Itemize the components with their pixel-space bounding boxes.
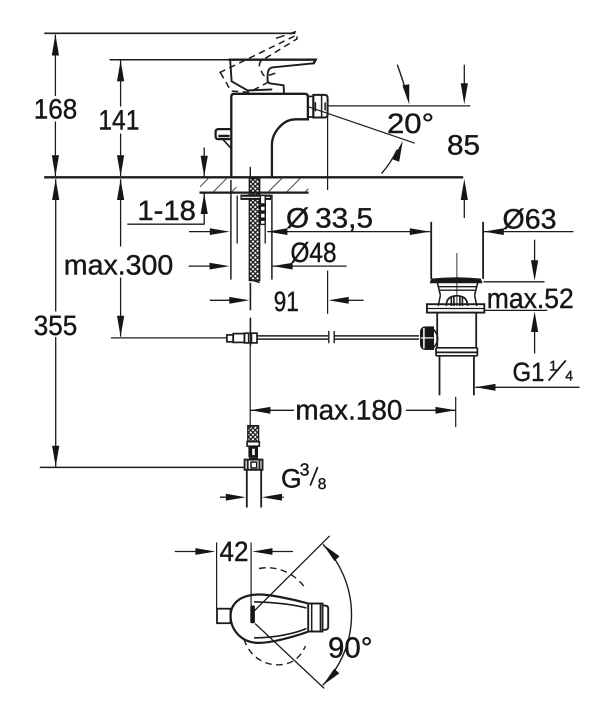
- node waste plug dome: [446, 296, 467, 306]
- svg-text:8: 8: [318, 476, 327, 493]
- wire dim 85 upper vertical: [463, 65, 465, 84]
- svg-text:20°: 20°: [387, 108, 434, 139]
- node arrow 42 right: [252, 548, 272, 555]
- node faucet body centerline tick: [249, 168, 251, 177]
- node arrow 141 top: [117, 60, 124, 81]
- node top-view supply block: [217, 609, 231, 624]
- svg-text:1: 1: [549, 358, 557, 374]
- node aerator block: [313, 95, 327, 118]
- node arrow max52 top: [531, 260, 538, 281]
- node arrow d63 left outside: [410, 228, 430, 235]
- node arrow 90deg top: [323, 544, 340, 561]
- node 90deg arc: [323, 544, 352, 685]
- node faucet body outline: [231, 94, 308, 177]
- node rod tee piece: [244, 333, 257, 343]
- node G3/8 tube: [247, 470, 261, 508]
- wire dim 85 lower vertical: [463, 199, 465, 218]
- wire dim max300 vertical: [120, 179, 122, 336]
- wire dim line d48: [189, 265, 347, 267]
- wire vertical pop-up rod: [249, 283, 251, 346]
- wire G3/8 dim tails: [220, 496, 284, 498]
- svg-text:max.52: max.52: [487, 283, 574, 314]
- node waste coupling rings: [436, 348, 477, 356]
- node arrow 1-18 bottom: [201, 193, 208, 214]
- wire 90deg radius line lower: [255, 624, 324, 689]
- node dashed lever (raised position): [219, 35, 310, 100]
- node waste cage side walls: [438, 295, 477, 306]
- node top-view handle teardrop outline: [231, 594, 309, 642]
- node rod break marks: [329, 331, 334, 343]
- node arrow max300 top: [117, 179, 124, 200]
- node waste rolled rim: [431, 278, 482, 283]
- node rod coupler block B: [233, 334, 244, 343]
- node waste body: [437, 313, 476, 348]
- node arrow d33.5 left outside: [210, 228, 230, 235]
- node top reference line (168 max height): [44, 32, 295, 34]
- wire dim 91 right tail: [349, 299, 364, 301]
- node waste neck with ring grooves: [437, 283, 477, 295]
- node aerator axis line (85 top ref): [328, 105, 470, 107]
- node label G1-1/4 fraction slash: [549, 360, 566, 380]
- wire 355 bottom reference line: [40, 466, 245, 468]
- node arrow 20deg lower: [393, 141, 403, 162]
- wire 42 left extension: [216, 542, 218, 608]
- node aerator collar: [308, 95, 313, 117]
- node side clip: [216, 129, 231, 139]
- node arrow 1-18 top: [201, 156, 208, 177]
- node hose end cap: [249, 457, 258, 459]
- node arrow max300 bottom: [117, 316, 124, 337]
- node top-view spout cap: [323, 606, 329, 630]
- wire dim 141 vertical: [120, 61, 122, 177]
- node top-view spout block: [308, 604, 322, 632]
- wire extension line hole-left: [236, 196, 238, 244]
- node arrow d63 right outside: [484, 228, 504, 235]
- node rod ball joint knob: [421, 327, 434, 350]
- node arrow 168 top: [52, 34, 59, 55]
- svg-text:Ø48: Ø48: [291, 237, 337, 268]
- wire max52 upper extension: [484, 281, 545, 283]
- wire horizontal rod thin left part: [111, 337, 227, 339]
- node top-view inner bottom line: [254, 629, 307, 638]
- wire dim 42 tails: [175, 551, 293, 553]
- node G3/8 nut: [245, 460, 263, 470]
- node deck hatching left: [200, 179, 237, 192]
- node hose nipple: [248, 446, 258, 457]
- node arrow 91 left: [229, 297, 249, 304]
- wire G1.25 leader: [475, 386, 579, 388]
- node arrow 90deg bottom: [323, 669, 340, 686]
- node 20deg stream line: [307, 106, 415, 143]
- node label G3/8 fraction slash: [310, 467, 318, 486]
- svg-text:90°: 90°: [328, 633, 373, 665]
- node waste upper tube: [431, 222, 483, 279]
- node top-view inner top line: [254, 602, 307, 608]
- wire extension line hole-right: [264, 196, 266, 244]
- node lever neck: [267, 67, 284, 93]
- svg-text:max.180: max.180: [295, 395, 402, 426]
- node arrow 355 top: [52, 179, 59, 200]
- node arrow max52 bottom: [531, 311, 538, 332]
- svg-text:85: 85: [447, 129, 480, 160]
- wire 90deg radius line upper: [253, 536, 329, 612]
- node arrow d48 right: [272, 263, 292, 270]
- node arrow max180 right: [436, 407, 456, 414]
- node hose collar: [247, 442, 259, 447]
- svg-text:max.300: max.300: [64, 250, 173, 281]
- svg-text:355: 355: [34, 310, 78, 341]
- node arrow 355 bottom: [52, 446, 59, 467]
- svg-text:168: 168: [34, 94, 78, 125]
- node aerator inner lines: [315, 95, 325, 117]
- wire dim 91 left tail: [210, 299, 230, 301]
- node lever blade underside: [272, 63, 314, 67]
- svg-text:141: 141: [98, 104, 139, 135]
- node arrow 85 top: [461, 83, 468, 104]
- node waste lower tube G1.25: [440, 356, 474, 396]
- node arrow 20deg upper: [402, 84, 409, 104]
- node waste flange: [427, 304, 484, 312]
- wire dim max180 line: [250, 409, 455, 411]
- node lever blade top: [229, 60, 315, 64]
- svg-text:3: 3: [300, 459, 310, 479]
- node pull rod upper column: [260, 195, 265, 224]
- node arrow G3/8 right: [262, 494, 282, 501]
- node waste plug slots: [451, 296, 462, 306]
- wire dim 355 vertical: [55, 179, 57, 466]
- node 20deg lower arc: [382, 150, 398, 174]
- node top-view lever slot: [250, 606, 255, 624]
- node rod coupler block A: [227, 335, 233, 342]
- node arrow 168 bottom: [52, 155, 59, 176]
- svg-text:Ø 33,5: Ø 33,5: [286, 202, 373, 233]
- wire aerator tip extension line: [327, 114, 329, 314]
- node arrow 141 bottom: [117, 155, 124, 176]
- node flex hose braid: [248, 426, 259, 442]
- svg-text:G: G: [281, 464, 302, 494]
- node dashed lever tip overshoot: [276, 32, 296, 39]
- node top-view dashed swing arc lower: [244, 639, 306, 665]
- node top-view dashed swing arc upper: [259, 568, 307, 590]
- svg-text:1-18: 1-18: [137, 195, 196, 226]
- node side clip inner bar: [220, 135, 229, 138]
- node rod ball joint ball: [434, 329, 438, 347]
- node arrow d33.5 right: [267, 228, 287, 235]
- svg-text:G1: G1: [513, 357, 545, 387]
- node side clip wedge: [223, 139, 231, 148]
- node lever-top reference line (141): [110, 59, 231, 61]
- wire max180 right extension: [455, 397, 457, 427]
- node arrow G1.25: [475, 384, 495, 391]
- node arrow 42 left: [195, 548, 215, 555]
- node arrow 91 right: [329, 297, 349, 304]
- node lever front edge: [230, 60, 271, 90]
- wire 42 right extension: [250, 542, 252, 605]
- wire dim line d33.5 / d63: [189, 231, 574, 233]
- wire extension line body-left below deck: [230, 180, 232, 280]
- svg-text:Ø63: Ø63: [503, 203, 557, 234]
- node deck top line: [44, 176, 463, 178]
- node horizontal rod double line: [257, 336, 419, 339]
- wire extension line body-right below deck: [271, 195, 273, 280]
- wire dim 168 vertical: [54, 35, 56, 176]
- node mounting nut below deck: [240, 195, 271, 200]
- node arrow 85 bottom: [461, 179, 468, 200]
- node arrow d48 left outside: [210, 263, 230, 270]
- wire dim 1-18 vertical + underline: [127, 148, 204, 225]
- node deck hatching right: [266, 179, 309, 192]
- node threaded shank: [249, 179, 259, 281]
- wire max52 lower extension: [484, 309, 547, 311]
- node arrow G3/8 left: [226, 494, 246, 501]
- wire max180 left extension: [249, 346, 251, 428]
- svg-text:42: 42: [220, 536, 249, 567]
- node 20deg upper arc: [397, 65, 406, 94]
- wire dim max52 lower vertical: [534, 332, 536, 354]
- node deck bottom line: [200, 192, 309, 194]
- svg-text:91: 91: [274, 286, 299, 317]
- wire dim max52 upper vertical: [534, 240, 536, 261]
- wire waste centerline: [456, 253, 458, 306]
- svg-text:4: 4: [565, 367, 573, 383]
- node arrow max180 left: [250, 407, 270, 414]
